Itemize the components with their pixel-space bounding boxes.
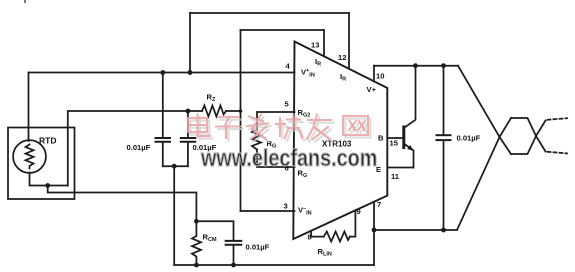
capacitor C2 plates bbox=[181, 138, 195, 142]
svg-text:12: 12 bbox=[338, 53, 346, 62]
transistor Q1 base bar bbox=[402, 127, 405, 148]
wire base stub pin 15 bbox=[387, 137, 404, 139]
wire pin 10 stub bbox=[373, 66, 375, 82]
capacitor C4 riser bbox=[443, 66, 445, 135]
svg-text:V+IN: V+IN bbox=[301, 68, 315, 79]
svg-text:7: 7 bbox=[377, 200, 381, 209]
svg-text:V–IN: V–IN bbox=[298, 206, 312, 217]
resistor RLIN bbox=[324, 232, 350, 242]
wire top line B bbox=[241, 29, 325, 31]
node RTD bottom junction bbox=[45, 183, 50, 188]
svg-text:4: 4 bbox=[286, 62, 291, 71]
node pin7 rail junction bbox=[372, 228, 377, 233]
svg-text:10: 10 bbox=[376, 71, 384, 80]
wire RCM to C3 bracket bbox=[196, 221, 233, 240]
wire RZ right lead bbox=[226, 110, 241, 112]
node RZ right junction bbox=[239, 109, 243, 113]
svg-text:11: 11 bbox=[391, 172, 400, 181]
svg-text:IR: IR bbox=[340, 72, 346, 83]
twisted pair eye bottom bbox=[511, 121, 546, 155]
op-amp U1 XTR103 body bbox=[293, 42, 387, 240]
capacitor C4 bottom lead bbox=[443, 140, 445, 230]
node RCM top junction bbox=[194, 219, 199, 224]
wire bottom rail bbox=[174, 264, 374, 266]
wire pin 9 stub bbox=[350, 211, 355, 236]
RTD box bbox=[8, 128, 75, 200]
svg-text:3: 3 bbox=[284, 202, 288, 211]
capacitor C3 plates bbox=[226, 241, 242, 245]
wire long vertical line B to pin 3 bbox=[240, 30, 242, 211]
wire pin 7 drop bbox=[373, 202, 375, 265]
transistor Q1 emitter bbox=[404, 144, 414, 168]
node C4 top junction bbox=[441, 63, 446, 68]
transistor Q1 emitter arrow bbox=[407, 145, 414, 151]
resistor RG external loop bbox=[257, 112, 295, 130]
svg-text:RTD: RTD bbox=[39, 136, 56, 146]
wire E stub pin 11 bbox=[387, 167, 413, 169]
capacitor C3 bottom lead bbox=[233, 245, 235, 265]
node RCM bottom junction bbox=[194, 263, 199, 268]
wire vertical from line A to V+IN line bbox=[189, 13, 191, 73]
transistor Q1 collector bbox=[405, 66, 416, 128]
wire RTD top lead bbox=[28, 73, 30, 142]
node collector rail junction bbox=[413, 63, 418, 68]
svg-text:13: 13 bbox=[311, 41, 319, 50]
capacitor C2 bottom lead bbox=[187, 142, 189, 166]
wire RTD bottom node horizontal bbox=[30, 173, 68, 186]
node caps common junction bbox=[172, 164, 177, 169]
wire loop + conductor bbox=[458, 66, 511, 154]
svg-text:15: 15 bbox=[390, 139, 399, 148]
node C2 top junction bbox=[186, 109, 191, 114]
node C3 bottom junction bbox=[231, 263, 236, 268]
svg-text:IR: IR bbox=[315, 57, 321, 68]
svg-text:0.01µF: 0.01µF bbox=[246, 243, 270, 252]
wire V+ rail bbox=[374, 65, 458, 67]
svg-text:8: 8 bbox=[308, 233, 312, 242]
resistor RZ bbox=[202, 106, 226, 117]
watermark chinese characters bbox=[188, 115, 368, 140]
svg-text:RG2: RG2 bbox=[298, 108, 311, 119]
svg-text:RCM: RCM bbox=[203, 233, 217, 244]
stray mark top left bbox=[24, 0, 26, 3]
resistor RCM bbox=[192, 221, 201, 265]
svg-text:V+: V+ bbox=[367, 85, 377, 94]
wire pin 12 drop from line A bbox=[348, 13, 350, 69]
wire loop return rail bbox=[374, 229, 457, 231]
wire capacitor pair bottom bracket bbox=[163, 165, 188, 167]
wire caps common drop to bottom rail bbox=[173, 166, 175, 265]
svg-text:0.01µF: 0.01µF bbox=[127, 143, 151, 152]
wire RTD return drop bbox=[48, 186, 197, 222]
RTD circle bbox=[13, 140, 46, 173]
wire pin 8 stub bbox=[311, 231, 324, 237]
capacitor C4 plates bbox=[437, 135, 451, 140]
capacitor C2 riser bbox=[187, 111, 189, 137]
wire RTD sense riser bbox=[68, 111, 202, 186]
svg-text:B: B bbox=[378, 134, 384, 143]
resistor RTD element bbox=[26, 145, 34, 169]
node line A junction bbox=[188, 70, 193, 75]
node C4 bottom junction bbox=[441, 228, 446, 233]
wire dashed continuation bottom bbox=[548, 152, 568, 154]
node C1 top junction bbox=[160, 70, 165, 75]
wire dashed continuation top bbox=[548, 118, 568, 120]
capacitor C1 plates bbox=[156, 138, 171, 142]
capacitor C1 bottom lead bbox=[162, 142, 164, 166]
wire loop - conductor bbox=[457, 118, 511, 230]
twisted pair eye top bbox=[511, 118, 546, 152]
svg-text:0.01µF: 0.01µF bbox=[457, 134, 481, 143]
watermark chinese characters shadow bbox=[190, 117, 370, 142]
wire pin 3 stub bbox=[241, 210, 295, 212]
wire top line A bbox=[190, 12, 349, 14]
wire V+IN horizontal (RTD top to pin 4) bbox=[29, 72, 295, 74]
svg-text:www.elecfans.com: www.elecfans.com bbox=[200, 144, 377, 171]
capacitor C1 riser bbox=[162, 73, 164, 138]
svg-text:RZ: RZ bbox=[207, 93, 216, 104]
svg-text:5: 5 bbox=[285, 100, 290, 109]
svg-text:RLIN: RLIN bbox=[318, 247, 332, 258]
svg-text:9: 9 bbox=[357, 207, 361, 216]
wire pin 13 drop from line B bbox=[323, 30, 325, 56]
